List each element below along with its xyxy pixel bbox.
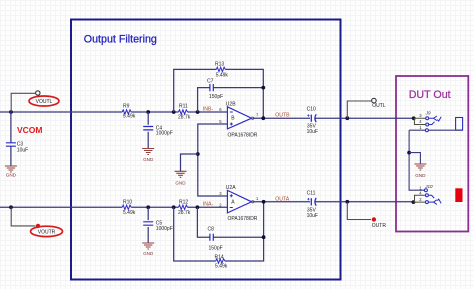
capacitor C11 (polarized) (310, 198, 312, 205)
node junction R14 branch (172, 205, 176, 209)
svg-text:GND: GND (143, 251, 154, 256)
capacitor C4 (147, 112, 149, 148)
port OUTR red dot (372, 217, 376, 221)
node junction OUTL stub (345, 116, 349, 120)
wire C7 feedback (198, 88, 264, 112)
node junction VOUTR stub (9, 205, 13, 209)
wire R14 feedback loop (174, 202, 264, 261)
svg-text:28.7k: 28.7k (178, 114, 191, 120)
capacitor C8 (210, 234, 213, 241)
wire stub to port OUTR (347, 202, 371, 220)
svg-text:5.49k: 5.49k (123, 114, 136, 120)
wire output net OUTB (253, 117, 414, 119)
node junction C8/R14 (262, 235, 266, 239)
wire R13 feedback loop (174, 69, 264, 118)
svg-text:OUTB: OUTB (275, 113, 290, 119)
node junction C5 branch (146, 205, 150, 209)
connector J10 sleeve rect (highlighted red) (455, 188, 462, 202)
svg-text:150pF: 150pF (209, 94, 223, 100)
svg-text:J9: J9 (425, 110, 431, 115)
wire output net OUTA (253, 201, 414, 203)
svg-text:OUTA: OUTA (275, 196, 290, 202)
wire stub to port VOUTL (11, 93, 35, 112)
svg-text:C8: C8 (208, 227, 215, 233)
ground GND (mid) (175, 171, 187, 177)
node junction C4 branch (146, 110, 150, 114)
svg-text:INB-: INB- (203, 106, 214, 112)
ground GND (C3) (5, 166, 17, 172)
capacitor C5 (147, 207, 149, 243)
wire stub to port OUTL (347, 101, 371, 118)
svg-text:VOUTR: VOUTR (38, 230, 56, 236)
wire C8 feedback (197, 207, 263, 237)
svg-text:5.49k: 5.49k (215, 264, 228, 270)
svg-text:GND: GND (175, 181, 186, 186)
wire stub to port VOUTR (11, 207, 35, 226)
wire gnd stub mid (181, 154, 198, 171)
svg-text:Output Filtering: Output Filtering (84, 33, 157, 45)
svg-text:INA-: INA- (203, 202, 214, 208)
svg-text:10uF: 10uF (17, 148, 28, 154)
resistor R11 (179, 110, 188, 114)
node junction C7 branch (196, 110, 200, 114)
node junction OUTR stub (345, 200, 349, 204)
wire J10 bracket pins 2/4 (413, 195, 425, 202)
capacitor C7 (210, 84, 213, 91)
svg-text:150pF: 150pF (209, 246, 223, 252)
resistor R9 (122, 110, 131, 114)
port label VOUTR (red ellipse) (31, 226, 63, 236)
node junction J10 (412, 200, 416, 204)
ground GND (C5) (142, 243, 154, 249)
node junction C8 branch (196, 205, 200, 209)
capacitor C10 (polarized) (310, 115, 312, 122)
svg-text:C3: C3 (17, 141, 24, 147)
svg-text:R10: R10 (123, 199, 132, 205)
svg-text:5.49k: 5.49k (216, 72, 229, 78)
resistor R10 (122, 205, 131, 209)
svg-text:C7: C7 (207, 79, 214, 85)
connector J9 jack symbol (429, 116, 441, 121)
svg-text:OUTR: OUTR (372, 223, 387, 229)
svg-text:GND: GND (6, 173, 17, 178)
svg-text:1000pF: 1000pF (156, 131, 173, 137)
svg-text:R13: R13 (215, 61, 224, 67)
resistor R14 (216, 259, 225, 263)
wire top main net VOUTL (0, 111, 227, 113)
connector J9 sleeve rect (456, 118, 463, 131)
svg-text:R12: R12 (179, 199, 188, 205)
capacitor C3 (10, 112, 12, 166)
wire mid GND net (pin5 U2B to pin3 U2A) (198, 124, 228, 196)
blueprint box "DUT Out" (396, 76, 468, 232)
svg-text:C10: C10 (307, 106, 316, 112)
svg-text:28.7k: 28.7k (178, 210, 191, 216)
svg-text:C11: C11 (307, 190, 316, 196)
svg-text:OPA1678IDR: OPA1678IDR (228, 216, 258, 222)
svg-text:J10: J10 (424, 184, 433, 189)
op-amp U2B (227, 107, 251, 129)
port label VOUTL (red ellipse) (29, 96, 59, 106)
svg-text:U2A: U2A (226, 185, 236, 191)
wire J9 pin1/sleeve (409, 129, 463, 131)
svg-text:R11: R11 (179, 103, 188, 109)
connector J9 pin circles (426, 117, 429, 120)
svg-text:10uF: 10uF (307, 213, 318, 219)
port VOUTL pin circle (36, 91, 40, 95)
svg-text:VOUTL: VOUTL (36, 99, 53, 105)
connector J10 jack symbol (429, 199, 442, 204)
svg-text:OPA1678IDR: OPA1678IDR (228, 133, 258, 139)
port OUTL pin circle (372, 98, 377, 103)
svg-text:DUT Out: DUT Out (409, 89, 451, 101)
connector J10 pin circles (424, 189, 427, 192)
node junction J9 (412, 116, 416, 120)
wire J9 bracket pins 3/4 (414, 118, 426, 124)
node junction VOUTL stub (9, 110, 13, 114)
node junction feedback/out A (262, 200, 266, 204)
svg-text:10uF: 10uF (307, 129, 318, 135)
node junction feedback/out B (261, 116, 265, 120)
wire gnd stub J9 (409, 153, 420, 164)
node junction R13 branch (172, 110, 176, 114)
resistor R12 (179, 205, 188, 209)
svg-text:GND: GND (143, 157, 154, 162)
node junction J9 gnd (407, 151, 411, 155)
svg-text:U2B: U2B (226, 101, 236, 107)
svg-text:VCOM: VCOM (17, 125, 43, 135)
svg-text:R9: R9 (123, 103, 130, 109)
op-amp U2A (227, 190, 251, 213)
svg-text:GND: GND (415, 173, 426, 178)
ground GND (C4) (142, 149, 154, 155)
svg-text:R14: R14 (215, 255, 224, 261)
ground GND (J9) (414, 164, 426, 170)
node junction C7/R13 (261, 86, 265, 90)
svg-text:OUTL: OUTL (372, 103, 386, 109)
resistor R13 (216, 67, 225, 71)
wire bottom main net VOUTR (0, 206, 227, 208)
svg-text:1000pF: 1000pF (156, 226, 173, 232)
blueprint box "Output Filtering" (71, 20, 341, 280)
node junction mid gnd (196, 152, 200, 156)
port VOUTR red dot (36, 224, 40, 228)
svg-text:5.49k: 5.49k (123, 210, 136, 216)
